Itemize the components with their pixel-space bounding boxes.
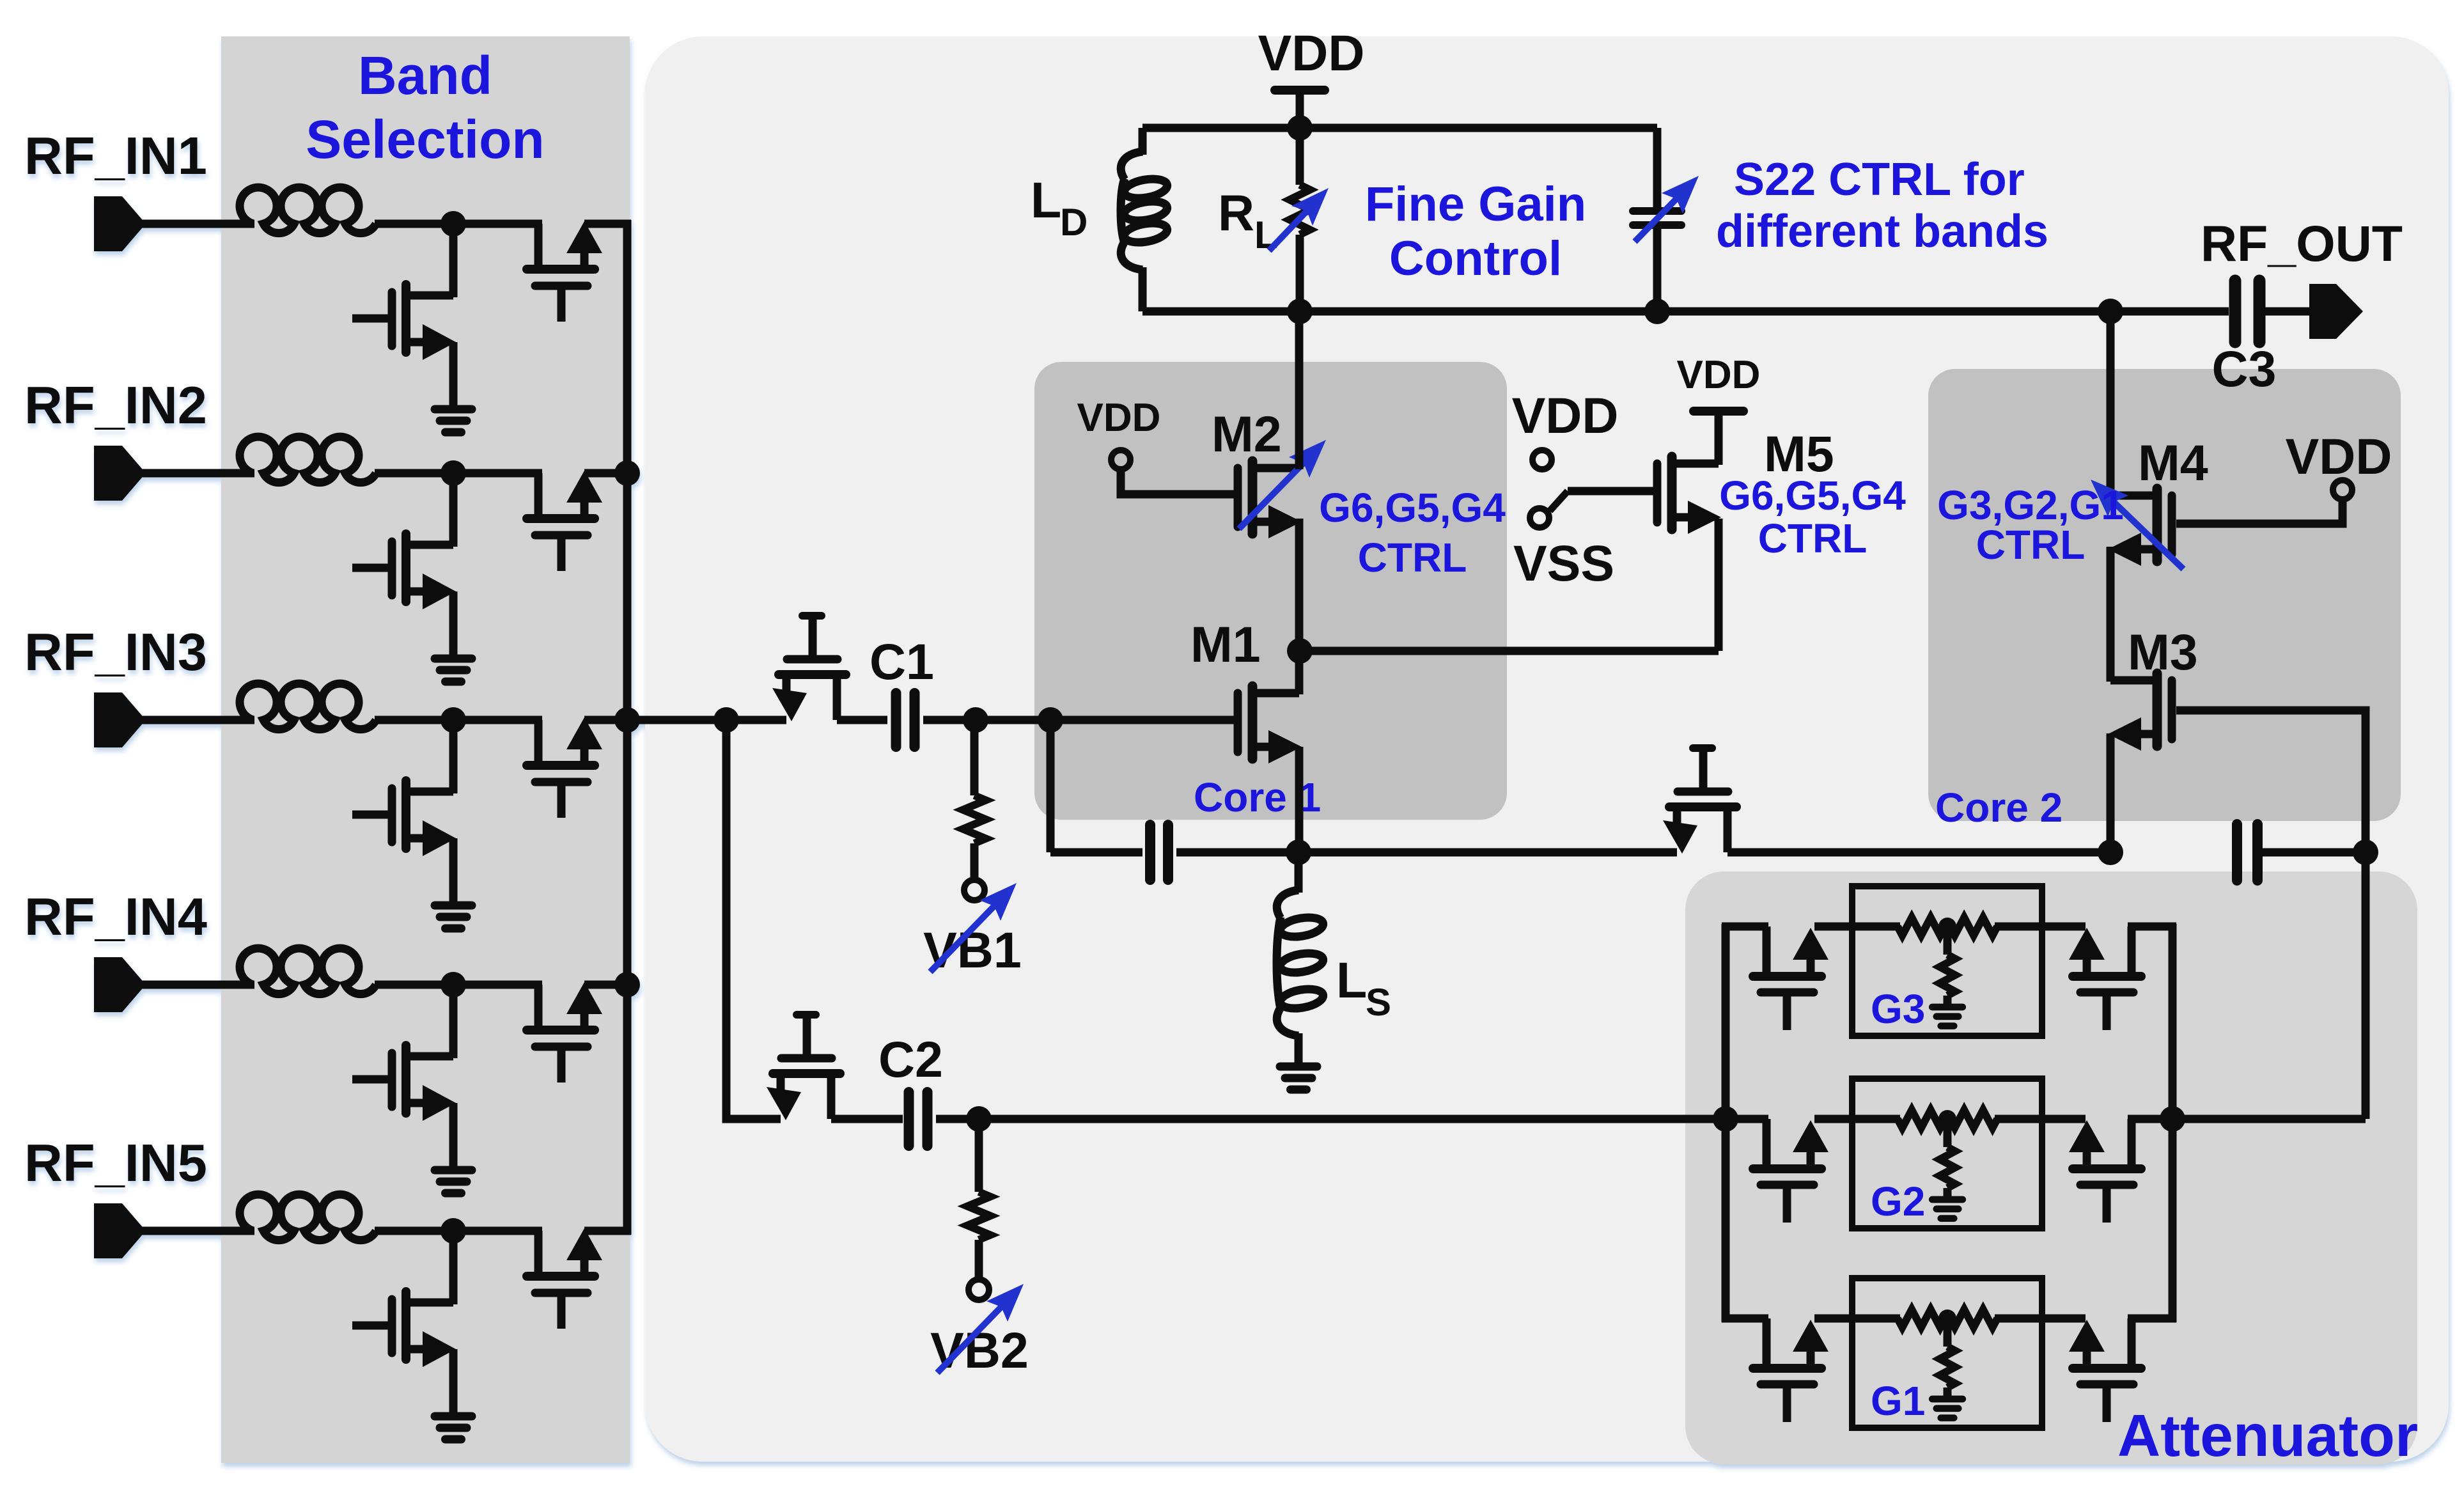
ground under L_S	[1280, 1067, 1317, 1090]
wire C3 to output arrow	[2259, 308, 2311, 316]
wire box to right switch G2	[2042, 1115, 2086, 1123]
wire inductor to node row 4	[375, 981, 542, 989]
bus junction row 3	[614, 707, 640, 733]
svg-text:VDD: VDD	[1677, 353, 1761, 397]
svg-text:C2: C2	[878, 1031, 943, 1088]
label G1	[1871, 1378, 1925, 1424]
blue arrow VB2	[937, 1284, 1024, 1373]
terminal VDD switch	[1532, 450, 1552, 469]
label M1	[1190, 616, 1261, 673]
svg-text:S: S	[1366, 981, 1391, 1024]
svg-text:M4: M4	[2138, 434, 2208, 491]
label RF_OUT	[2201, 215, 2403, 272]
resistor series left G2	[1898, 1110, 1945, 1128]
transistor M3	[2108, 673, 2172, 751]
terminal VB2	[969, 1279, 989, 1300]
label Band Selection	[306, 45, 544, 169]
output port RF_OUT arrow	[2309, 284, 2363, 339]
node input branch junction	[713, 707, 739, 733]
wire RF_IN3 to inductor	[142, 716, 254, 724]
series switch transistor row 1	[527, 221, 602, 322]
svg-text:S22 CTRL for: S22 CTRL for	[1734, 154, 2025, 205]
wire C2 row to attenuator	[979, 1115, 1726, 1123]
svg-text:M2: M2	[1212, 405, 1282, 462]
background main light panel	[645, 36, 2449, 1462]
wire feedback cap to Ls node	[1176, 848, 1298, 857]
node VB2 junction	[966, 1106, 992, 1132]
capacitor at M3 source	[2237, 824, 2257, 880]
core 1 grey box	[1034, 362, 1507, 820]
wire M3 gate lead	[2176, 710, 2366, 852]
G3 T-network box	[1852, 886, 2042, 1036]
wire switch to bus row 2	[584, 469, 631, 478]
wire cap to right node	[2257, 848, 2366, 857]
inductor L1 (input matching)	[240, 187, 376, 233]
wire left bus to G1 switch	[1722, 1315, 1768, 1323]
svg-text:G3: G3	[1871, 986, 1925, 1032]
label G2	[1871, 1178, 1925, 1224]
input port RF_IN2 arrow	[94, 446, 146, 501]
wire M3 source down	[2107, 733, 2115, 852]
wire varcap bottom	[1653, 225, 1662, 311]
label Core 1	[1194, 774, 1321, 820]
svg-text:VSS: VSS	[1513, 535, 1614, 591]
feedback capacitor core1	[1150, 825, 1168, 880]
label G6,G5,G4 CTRL at M5	[1719, 473, 1906, 561]
wire shunt to ground G3	[1944, 996, 1952, 1004]
label C1	[869, 633, 934, 690]
wire M5 source down	[1715, 519, 1723, 651]
wire box-left to resistor G1	[1852, 1315, 1900, 1323]
inductor L_S	[1277, 852, 1325, 1063]
resistor series right G2	[1950, 1110, 1997, 1128]
wire bus to input node	[627, 716, 726, 724]
wire M4 gate lead	[2176, 500, 2343, 524]
transistor M4 (variable)	[2108, 489, 2172, 566]
wire Ls node to mid switch	[1298, 848, 1677, 857]
svg-text:G2: G2	[1871, 1178, 1925, 1224]
label G3	[1871, 986, 1925, 1032]
wire VDD bar to M5 drain	[1715, 416, 1723, 465]
power VDD top bar	[1275, 90, 1325, 123]
label RF_IN1	[24, 126, 207, 185]
svg-text:R: R	[1218, 184, 1254, 241]
wire M1 drain up	[1295, 655, 1304, 694]
label VB2	[930, 1322, 1029, 1379]
wire node to M1 gate	[1050, 716, 1240, 724]
series switch transistor row 3	[527, 717, 602, 818]
svg-text:CTRL: CTRL	[1358, 535, 1467, 581]
wire to feedback cap	[1050, 848, 1142, 857]
node RL bottom junction	[1287, 299, 1313, 324]
svg-text:VDD: VDD	[1077, 396, 1161, 440]
label Fine Gain Control	[1365, 177, 1586, 286]
svg-text:Fine Gain: Fine Gain	[1365, 177, 1586, 231]
label C3	[2212, 340, 2277, 397]
svg-text:G1: G1	[1871, 1378, 1925, 1424]
node VDD rail junction	[1287, 115, 1313, 141]
label G6,G5,G4 CTRL core1	[1319, 485, 1506, 581]
attenuator left bus	[1722, 924, 1730, 1322]
label RF_IN2	[24, 375, 207, 435]
label VDD at M2 gate	[1077, 396, 1161, 440]
wire resistor to box-right G3	[1995, 923, 2042, 931]
svg-text:Selection: Selection	[306, 109, 544, 169]
node M3 source junction	[2098, 840, 2123, 865]
wire M2 source down	[1295, 519, 1304, 651]
core 2 grey box	[1928, 369, 2401, 821]
wire box to right switch G3	[2042, 923, 2086, 931]
wire M5 gate lead	[1568, 487, 1660, 496]
wire C1 to VB1 node	[923, 716, 976, 724]
node row 3 junction	[441, 707, 466, 733]
resistor series right G3	[1950, 918, 1997, 935]
wire inductor to node row 1	[375, 220, 542, 228]
svg-text:M1: M1	[1190, 616, 1261, 673]
svg-text:VDD: VDD	[1258, 24, 1365, 81]
node varcap bottom junction	[1644, 299, 1670, 324]
terminal VDD at M4	[2333, 480, 2352, 499]
wire M2 drain to top rail	[1295, 315, 1304, 469]
wire box-left to resistor G2	[1852, 1115, 1900, 1123]
label M5	[1764, 425, 1834, 482]
wire resistor to box-right G1	[1995, 1315, 2042, 1323]
svg-text:RF_IN2: RF_IN2	[24, 375, 207, 435]
input port RF_IN4 arrow	[94, 957, 146, 1012]
node right vertical junction	[2353, 840, 2378, 865]
resistor shunt G3	[1940, 926, 1955, 996]
label VB1	[923, 921, 1022, 978]
node T junction G1	[1938, 1309, 1956, 1327]
resistor series right G1	[1950, 1309, 1997, 1327]
wire switch to C1	[837, 716, 887, 724]
inductor L2 (input matching)	[240, 437, 376, 483]
bus junction row 2	[614, 460, 640, 486]
capacitor C3	[2235, 281, 2259, 342]
svg-text:CTRL: CTRL	[1976, 522, 2086, 568]
capacitor C2	[909, 1092, 928, 1146]
G1 T-network box	[1852, 1278, 2042, 1428]
capacitor C1	[896, 693, 915, 747]
svg-text:L: L	[1031, 171, 1061, 228]
wire attenuator right to up-node	[2172, 1115, 2366, 1123]
node RF_OUT branch junction	[2098, 299, 2123, 324]
inductor L4 (input matching)	[240, 948, 376, 994]
node M1 gate junction	[1038, 707, 1063, 733]
wire M4 source to M3 drain	[2107, 547, 2115, 682]
wire VB1 node to M1 gate node	[976, 716, 1050, 724]
svg-text:RF_OUT: RF_OUT	[2201, 215, 2403, 272]
attenuator right bus	[2169, 924, 2177, 1322]
wire resistor to box-right G2	[1995, 1115, 2042, 1123]
wire left bus to G2 switch	[1722, 1115, 1768, 1123]
wire RF_IN1 to inductor	[142, 220, 254, 228]
switch lever VSS	[1550, 491, 1568, 511]
node row 5 junction	[441, 1218, 466, 1244]
wire mid switch to M3 source node	[1727, 848, 2110, 857]
wire varcap top	[1653, 128, 1662, 208]
inductor L3 (input matching)	[240, 684, 376, 730]
G2 T-network box	[1852, 1079, 2042, 1228]
svg-text:different bands: different bands	[1716, 206, 2048, 257]
wire switch to bus row 1	[584, 220, 631, 228]
bottom rail wire	[1142, 308, 2229, 316]
attenuator right switch G1	[2069, 1318, 2141, 1422]
resistor bias RB2	[967, 1119, 990, 1280]
wire M5 source to M1 drain node	[1300, 647, 1719, 655]
svg-text:Band: Band	[358, 45, 492, 106]
wire RF_OUT node down to M4	[2107, 311, 2115, 497]
series switch transistor row 5	[527, 1228, 602, 1329]
inductor L_D	[1121, 128, 1169, 311]
svg-text:L: L	[1336, 951, 1367, 1008]
wire switch to box G1	[1814, 1315, 1855, 1323]
wire input node to C1 switch	[726, 716, 786, 724]
shunt transistor row 3	[352, 720, 472, 928]
label VDD above M5	[1677, 353, 1761, 397]
blue arrow M2 gain select	[1239, 440, 1326, 529]
label VSS	[1513, 535, 1614, 591]
wire inductor to node row 2	[375, 469, 542, 478]
input port RF_IN5 arrow	[94, 1203, 146, 1258]
label M3	[2128, 623, 2198, 680]
resistor shunt G1	[1940, 1318, 1955, 1387]
svg-text:G6,G5,G4: G6,G5,G4	[1719, 473, 1906, 519]
svg-text:L: L	[1254, 214, 1278, 256]
resistor bias RB1	[963, 720, 986, 880]
wire RF_IN2 to inductor	[142, 469, 254, 478]
blue arrow VB1 (variable)	[930, 883, 1017, 972]
label L_S	[1336, 951, 1391, 1024]
terminal VB1	[964, 880, 985, 900]
svg-text:RF_IN1: RF_IN1	[24, 126, 207, 185]
resistor series left G3	[1898, 918, 1945, 935]
label R_L	[1218, 184, 1278, 256]
switch transistor before C1	[772, 616, 846, 721]
svg-text:Attenuator: Attenuator	[2117, 1402, 2418, 1469]
svg-text:Control: Control	[1389, 231, 1562, 286]
attenuator grey box	[1685, 872, 2417, 1464]
node attenuator right junction	[2160, 1106, 2185, 1132]
wire M2 gate lead	[1121, 469, 1238, 494]
wire RF_IN5 to inductor	[142, 1227, 254, 1235]
wire switch to C2	[831, 1115, 903, 1123]
switch transistor before C2	[767, 1015, 840, 1120]
wire left bus to G3 switch	[1722, 923, 1768, 931]
wire inductor to node row 3	[375, 716, 542, 724]
wire shunt to ground G1	[1944, 1387, 1952, 1396]
label RF_IN5	[24, 1133, 207, 1192]
series switch transistor row 4	[527, 982, 602, 1083]
label M4	[2138, 434, 2208, 491]
bus junction row 4	[614, 972, 640, 997]
wire input node down to C2 row	[726, 720, 781, 1119]
svg-text:M3: M3	[2128, 623, 2198, 680]
wire shunt to ground G2	[1944, 1188, 1952, 1197]
shunt transistor row 1	[352, 224, 472, 432]
attenuator right switch G2	[2069, 1119, 2141, 1223]
transistor M2 (variable cascode)	[1238, 461, 1302, 538]
input port RF_IN1 arrow	[94, 196, 146, 251]
label S22 CTRL for different bands	[1716, 154, 2048, 257]
attenuator left switch G2	[1753, 1119, 1829, 1223]
node Ls top junction	[1286, 840, 1311, 865]
svg-text:RF_IN3: RF_IN3	[24, 622, 207, 682]
node VB1 junction	[963, 707, 988, 733]
svg-text:VDD: VDD	[1512, 387, 1619, 444]
label M2	[1212, 405, 1282, 462]
attenuator left switch G3	[1753, 926, 1829, 1030]
svg-text:C3: C3	[2212, 340, 2277, 397]
wire inductor to node row 5	[375, 1227, 542, 1235]
wire right vertical (M3 gate / attenuator)	[2362, 852, 2370, 1119]
wire switch to bus row 4	[584, 981, 631, 989]
resistor R_L (variable)	[1290, 128, 1310, 311]
svg-text:CTRL: CTRL	[1758, 515, 1867, 561]
node T junction G2	[1938, 1110, 1956, 1128]
label RF_IN3	[24, 622, 207, 682]
svg-text:RF_IN4: RF_IN4	[24, 887, 207, 946]
wire right switch to bus G1	[2128, 1315, 2176, 1323]
shunt transistor row 4	[352, 985, 472, 1193]
svg-text:C1: C1	[869, 633, 934, 690]
band selection grey box	[221, 36, 630, 1463]
node M1 drain junction	[1287, 638, 1313, 664]
attenuator right switch G3	[2069, 926, 2141, 1030]
wire box to right switch G1	[2042, 1315, 2086, 1323]
shunt transistor row 5	[352, 1231, 472, 1439]
label Core 2	[1935, 785, 2062, 831]
blue arrow M4	[2091, 480, 2183, 569]
svg-text:G6,G5,G4: G6,G5,G4	[1319, 485, 1506, 531]
ground G2	[1932, 1200, 1963, 1219]
svg-text:VDD: VDD	[2286, 428, 2392, 485]
series switch transistor row 2	[527, 471, 602, 571]
wire switch to box G3	[1814, 923, 1855, 931]
transistor M1	[1238, 686, 1302, 763]
wire RF_IN4 to inductor	[142, 981, 254, 989]
label C2	[878, 1031, 943, 1088]
wire switch to bus row 5	[584, 1227, 631, 1235]
wire C2 to VB2 node	[936, 1115, 979, 1123]
node row 1 junction	[441, 211, 466, 237]
wire box-left to resistor G3	[1852, 923, 1900, 931]
ground G1	[1932, 1399, 1963, 1418]
wire right switch to bus G3	[2128, 923, 2176, 931]
resistor series left G1	[1898, 1309, 1945, 1327]
wire right switch to bus G2	[2128, 1115, 2176, 1123]
svg-text:Core 2: Core 2	[1935, 785, 2062, 831]
svg-text:D: D	[1060, 201, 1088, 244]
resistor shunt G2	[1940, 1119, 1955, 1188]
mid switch transistor (bypass)	[1663, 748, 1736, 854]
terminal VDD at M2 gate	[1111, 450, 1130, 469]
label RF_IN4	[24, 887, 207, 946]
wire M1 gate node down	[1047, 720, 1055, 852]
blue arrow R_L fine gain	[1269, 188, 1329, 251]
wire switch to box G2	[1814, 1115, 1855, 1123]
node T junction G3	[1938, 918, 1956, 935]
label VDD top	[1258, 24, 1365, 81]
label Attenuator	[2117, 1402, 2418, 1469]
label VDD at switch	[1512, 387, 1619, 444]
ground G3	[1932, 1007, 1963, 1026]
node row 4 junction	[441, 972, 466, 997]
transistor M5	[1657, 457, 1721, 534]
label L_D	[1031, 171, 1088, 244]
band selection output bus (vertical wire)	[623, 220, 632, 1235]
input port RF_IN3 arrow	[94, 692, 146, 747]
blue arrow varcap	[1635, 176, 1699, 242]
label VDD at M4	[2286, 428, 2392, 485]
top rail wire	[1142, 124, 1657, 132]
inductor L5 (input matching)	[240, 1194, 376, 1240]
wire switch to bus row 3	[584, 716, 631, 724]
capacitor S22 tuning (variable)	[1633, 211, 1681, 225]
terminal VSS switch	[1530, 508, 1549, 528]
attenuator left switch G1	[1753, 1318, 1829, 1422]
shunt transistor row 2	[352, 473, 472, 682]
wire M1 source down	[1295, 747, 1304, 852]
power VDD bar at M5	[1694, 411, 1743, 444]
svg-text:RF_IN5: RF_IN5	[24, 1133, 207, 1192]
node row 2 junction	[441, 460, 466, 486]
node attenuator left junction	[1713, 1106, 1738, 1132]
label G3,G2,G1 CTRL	[1937, 482, 2124, 568]
